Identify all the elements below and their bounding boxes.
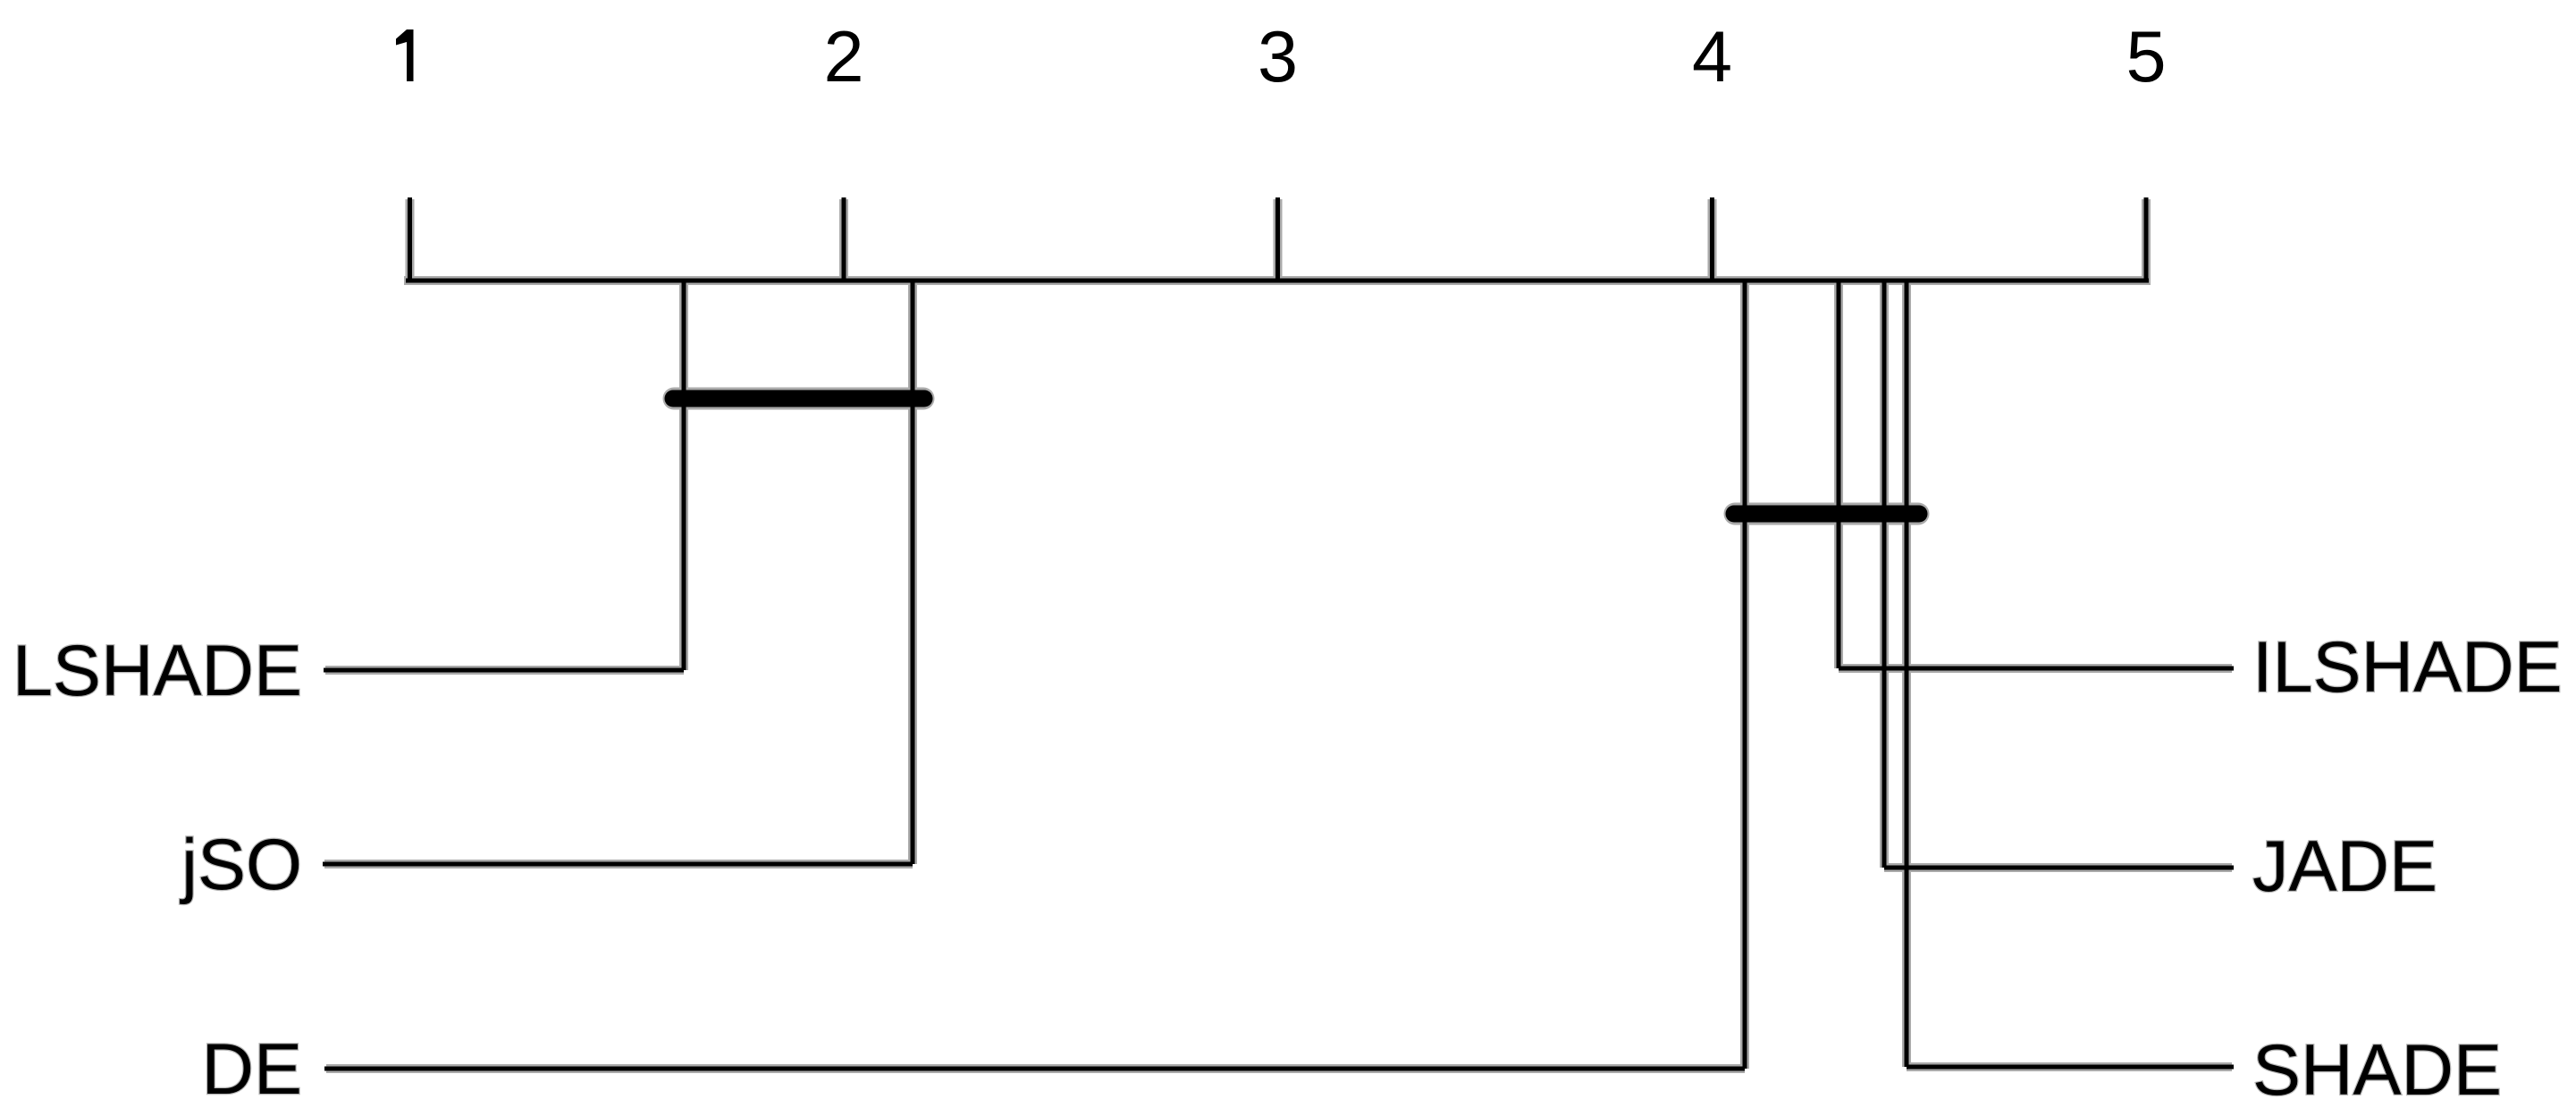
- svg-text:jSO: jSO: [180, 825, 302, 905]
- svg-text:2: 2: [823, 17, 863, 97]
- svg-text:3: 3: [1258, 17, 1298, 97]
- svg-text:SHADE: SHADE: [2252, 1030, 2502, 1111]
- svg-text:5: 5: [2126, 17, 2166, 97]
- svg-text:DE: DE: [201, 1029, 302, 1110]
- svg-text:4: 4: [1692, 17, 1732, 97]
- svg-text:JADE: JADE: [2252, 827, 2437, 907]
- svg-text:ILSHADE: ILSHADE: [2252, 627, 2563, 708]
- svg-text:LSHADE: LSHADE: [13, 631, 302, 711]
